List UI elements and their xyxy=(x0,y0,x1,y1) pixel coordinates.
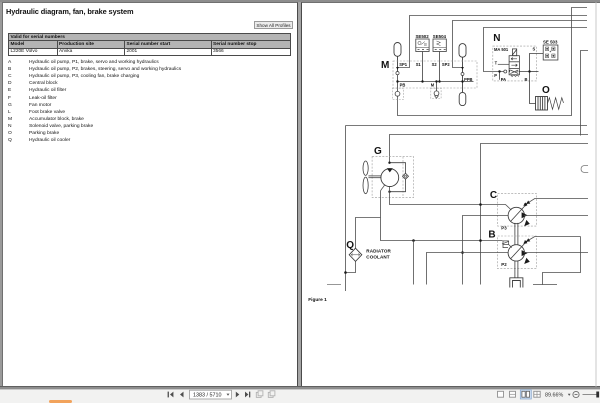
motor inlet triangle xyxy=(387,168,393,172)
pump B dashed box xyxy=(498,236,537,269)
case drain curve xyxy=(381,185,481,241)
svg-text:P2: P2 xyxy=(501,262,507,267)
engine coupling xyxy=(510,278,523,288)
pump C outlet wire xyxy=(524,215,588,217)
svg-text:S: S xyxy=(533,46,536,51)
toolbar items xyxy=(0,0,600,1)
svg-text:PB: PB xyxy=(400,82,406,87)
pump B inlet wire from bottom corner xyxy=(427,253,509,285)
accumulator SP2 xyxy=(459,44,466,73)
svg-text:PA: PA xyxy=(501,77,506,82)
fan motor G dashed box xyxy=(372,157,413,198)
disabled view buttons xyxy=(256,391,275,398)
layout single xyxy=(498,391,504,397)
junction dot motor outlet xyxy=(388,191,390,193)
svg-text:M: M xyxy=(431,82,435,87)
shaft B-coupling xyxy=(515,261,518,278)
svg-text:1383 / 5710: 1383 / 5710 xyxy=(193,393,221,399)
svg-text:COOLANT: COOLANT xyxy=(366,255,390,260)
port labels P PA B S xyxy=(494,46,535,82)
left page content xyxy=(6,7,133,16)
accumulator lower (below PPB) xyxy=(459,76,466,106)
junction dot cooler return xyxy=(344,271,347,274)
first page button xyxy=(168,392,174,398)
pressure sensor SE504 xyxy=(433,34,447,82)
left frame vertical xyxy=(345,126,347,292)
svg-text:B: B xyxy=(488,230,495,241)
pump C inlet wire xyxy=(463,216,509,285)
bypass check valve diamond xyxy=(403,173,409,179)
connector C glyph at right edge xyxy=(581,166,588,173)
page right edge line xyxy=(595,2,597,387)
junction dot valve B port xyxy=(528,70,530,72)
check valve M port xyxy=(434,91,439,96)
junction dot drain / tank vertical xyxy=(479,239,482,242)
svg-text:Figure 1: Figure 1 xyxy=(308,297,327,303)
zoom out circle xyxy=(573,391,579,397)
port labels SP1 S1 S2 SP2 xyxy=(399,62,472,87)
svg-text:S1: S1 xyxy=(416,62,422,67)
layout facing (selected) xyxy=(520,390,531,399)
last page button xyxy=(245,392,250,398)
wire SP2 charge feed from off-page right xyxy=(453,21,588,68)
vertical drop from drain line xyxy=(413,241,415,285)
svg-text:89.66%: 89.66% xyxy=(545,393,563,399)
svg-text:Q: Q xyxy=(346,240,354,251)
junction dot drain line xyxy=(412,239,415,242)
svg-text:B: B xyxy=(525,77,528,82)
svg-text:SE502: SE502 xyxy=(416,34,430,39)
right page schematic xyxy=(301,2,600,387)
hydraulic oil cooler Q diamond xyxy=(349,248,362,261)
shaft C-B xyxy=(515,223,518,245)
solenoid valve N dashed box xyxy=(493,46,537,81)
orifice on P line xyxy=(504,70,507,73)
svg-text:G: G xyxy=(374,146,382,157)
fan blades xyxy=(363,161,381,194)
accumulator SP1 xyxy=(394,43,401,72)
junction dot fan return / tank vertical xyxy=(479,203,482,206)
PA stub xyxy=(499,72,501,80)
pressure sensor SE502 xyxy=(416,34,430,82)
layout facing continuous xyxy=(534,391,540,397)
svg-text:MA 501: MA 501 xyxy=(494,47,509,52)
accumulator block M dashed box xyxy=(393,61,477,88)
long line y=125.5 with right stub down xyxy=(346,125,588,127)
svg-text:S2: S2 xyxy=(432,62,438,67)
svg-text:SP1: SP1 xyxy=(399,62,407,67)
parking brake O xyxy=(536,97,564,111)
wire right-edge branch xyxy=(581,51,589,136)
cooler outlet to left frame line xyxy=(346,261,356,272)
check valve PB xyxy=(395,91,400,96)
svg-text:M: M xyxy=(381,60,389,71)
prev page button xyxy=(180,392,184,398)
next page button xyxy=(236,392,240,398)
bypass check branch xyxy=(390,163,406,192)
wire fan return to pump C suction xyxy=(481,205,512,211)
pump C xyxy=(508,199,588,227)
tank line right xyxy=(481,144,589,285)
slider xyxy=(583,394,599,396)
solenoid valve MA501 xyxy=(509,49,519,77)
svg-text:P3: P3 xyxy=(501,225,507,230)
wire B control return tail xyxy=(543,237,581,285)
fan supply wire xyxy=(390,135,589,163)
motor circle xyxy=(381,169,399,187)
pump B pilot box xyxy=(502,241,509,248)
wire drain line to pump B pilot xyxy=(481,241,512,248)
svg-text:SE504: SE504 xyxy=(433,34,447,39)
svg-text:P: P xyxy=(494,73,497,78)
wire bottom-left stub xyxy=(327,284,341,286)
layout continuous xyxy=(510,391,516,397)
svg-text:T: T xyxy=(495,60,498,65)
junction dot pump inlets xyxy=(461,251,464,254)
wire SP1 charge feed from off-page right xyxy=(398,16,587,68)
svg-text:C: C xyxy=(490,190,497,201)
drain branch to cooler Q xyxy=(356,218,381,249)
svg-text:RADIATOR: RADIATOR xyxy=(366,249,391,254)
motor outlet down then right xyxy=(390,187,481,205)
wire P feed to valve N from off-page right xyxy=(484,28,588,72)
junction dot motor inlet xyxy=(388,162,390,164)
orifice PPB xyxy=(461,73,464,76)
pump B xyxy=(508,237,580,265)
wire tank edge segment xyxy=(533,284,557,286)
T drain stub xyxy=(498,63,509,65)
page number box xyxy=(190,390,232,399)
pump C dashed box xyxy=(498,193,537,226)
svg-text:SE 503: SE 503 xyxy=(543,40,558,45)
svg-text:SP2: SP2 xyxy=(442,62,450,67)
bus wire inside M block xyxy=(397,81,474,83)
wire PB return line: M-block PB port down, right, up, off right edge xyxy=(398,8,588,116)
junction dot valve P port xyxy=(498,70,500,72)
pump B outlet wire xyxy=(524,252,588,254)
orifice on SP1 leg xyxy=(396,72,399,75)
svg-text:O: O xyxy=(542,85,550,96)
junction dots xyxy=(396,67,464,83)
svg-text:N: N xyxy=(493,33,500,44)
wire valve B port to SE503 and brake O xyxy=(519,54,543,104)
